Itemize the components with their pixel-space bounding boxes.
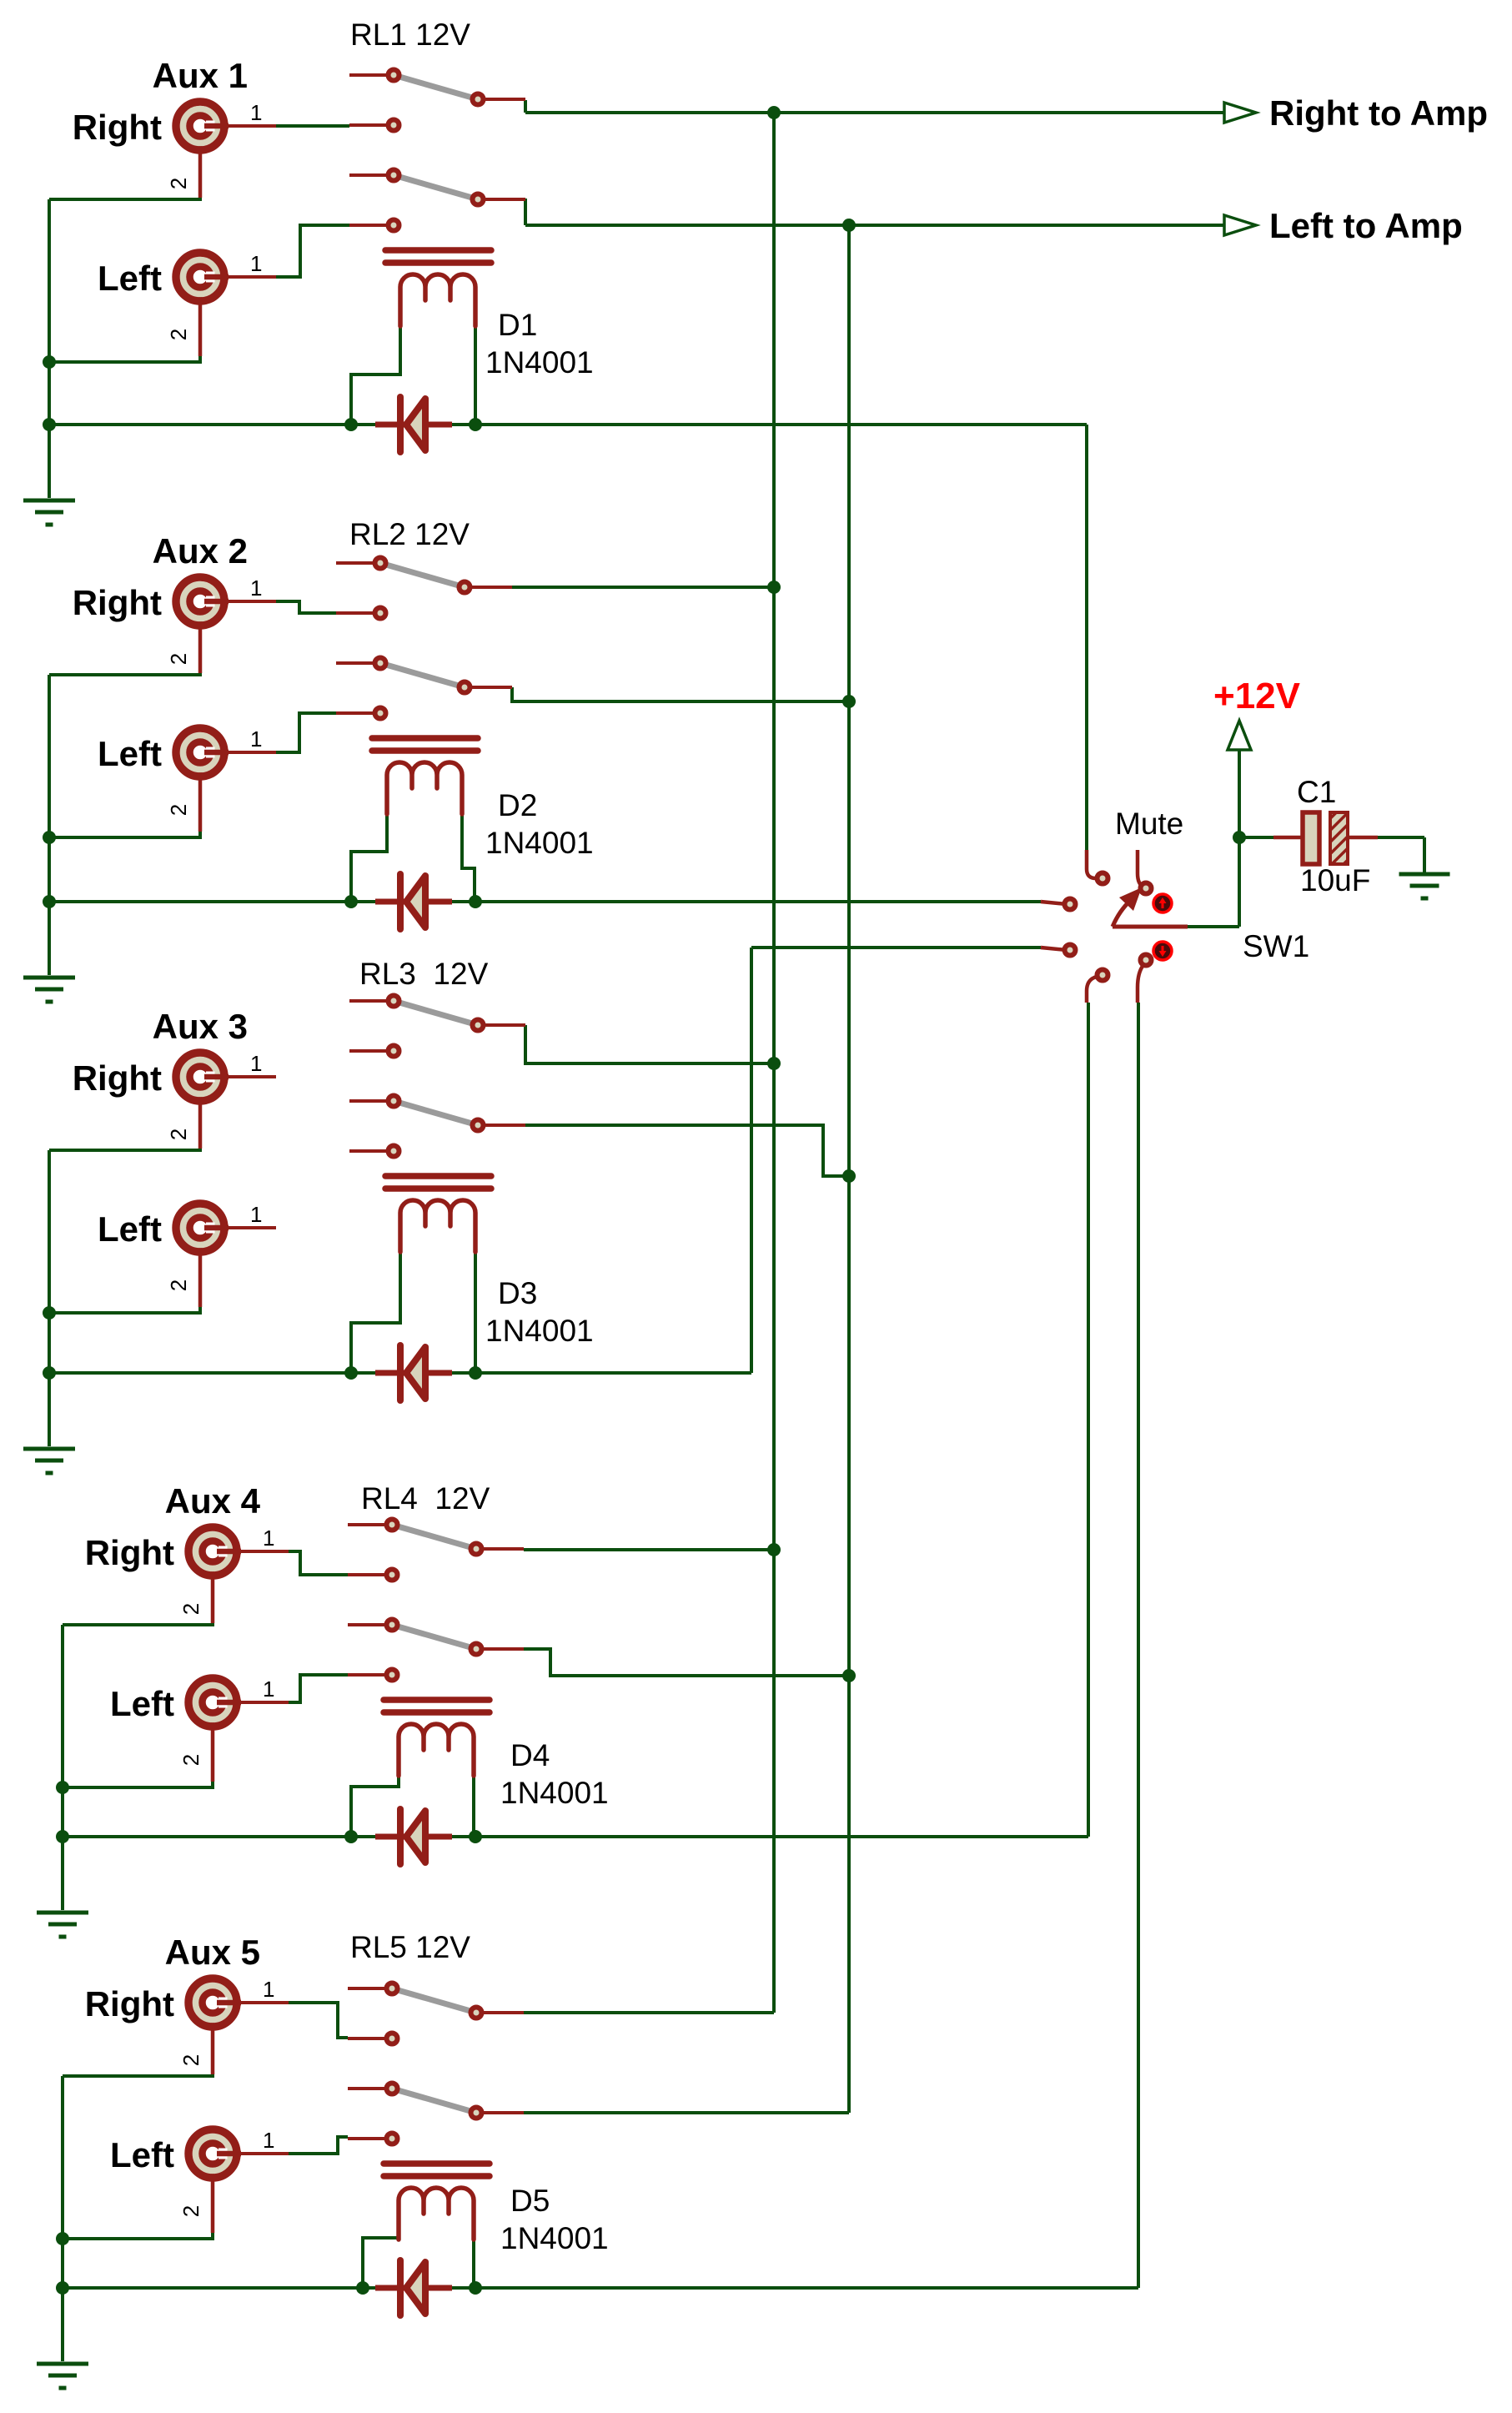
svg-text:D5: D5	[510, 2184, 550, 2218]
svg-text:2: 2	[166, 1279, 191, 1291]
svg-text:2: 2	[166, 178, 191, 189]
svg-text:1: 1	[263, 1977, 274, 2002]
svg-text:+12V: +12V	[1213, 676, 1301, 716]
svg-text:Left to Amp: Left to Amp	[1269, 206, 1463, 245]
svg-text:Left: Left	[98, 259, 162, 298]
svg-text:2: 2	[166, 653, 191, 665]
svg-text:2: 2	[178, 2205, 203, 2217]
svg-text:1N4001: 1N4001	[485, 1314, 594, 1348]
svg-text:D4: D4	[510, 1738, 550, 1772]
svg-text:Left: Left	[110, 2135, 174, 2174]
svg-text:1N4001: 1N4001	[500, 1776, 609, 1810]
svg-text:1: 1	[250, 576, 262, 601]
svg-text:RL2 12V: RL2 12V	[349, 517, 470, 551]
svg-text:1: 1	[263, 1526, 274, 1551]
svg-text:2: 2	[166, 329, 191, 340]
svg-text:Aux 4: Aux 4	[165, 1481, 261, 1521]
svg-text:RL3 12V: RL3 12V	[359, 957, 489, 991]
svg-text:Aux 3: Aux 3	[153, 1007, 248, 1046]
svg-text:Right: Right	[73, 583, 162, 622]
svg-text:10uF: 10uF	[1300, 863, 1370, 897]
svg-text:1: 1	[263, 1677, 274, 1702]
svg-text:D1: D1	[498, 308, 537, 342]
svg-text:RL1 12V: RL1 12V	[350, 18, 470, 52]
svg-text:RL5 12V: RL5 12V	[350, 1930, 470, 1964]
svg-text:Right: Right	[73, 108, 162, 147]
svg-text:1: 1	[263, 2128, 274, 2153]
svg-text:Right to Amp: Right to Amp	[1269, 93, 1488, 133]
svg-text:1: 1	[250, 100, 262, 125]
svg-text:C1: C1	[1297, 775, 1336, 809]
svg-text:2: 2	[166, 1129, 191, 1140]
svg-text:Aux 5: Aux 5	[165, 1933, 260, 1972]
svg-text:Mute: Mute	[1115, 807, 1183, 841]
svg-text:1: 1	[250, 726, 262, 752]
svg-text:1N4001: 1N4001	[485, 345, 594, 380]
svg-text:Right: Right	[85, 1533, 174, 1572]
svg-text:Left: Left	[110, 1684, 174, 1723]
svg-text:SW1: SW1	[1243, 929, 1309, 963]
svg-text:2: 2	[178, 1603, 203, 1615]
svg-text:Right: Right	[85, 1984, 174, 2023]
svg-text:2: 2	[178, 2054, 203, 2066]
svg-text:1: 1	[250, 1202, 262, 1227]
svg-text:D3: D3	[498, 1276, 537, 1310]
svg-text:2: 2	[178, 1754, 203, 1766]
svg-text:1: 1	[250, 251, 262, 276]
svg-text:Aux 1: Aux 1	[153, 56, 248, 95]
svg-text:1N4001: 1N4001	[485, 826, 594, 860]
svg-text:Aux 2: Aux 2	[153, 531, 248, 571]
svg-text:1: 1	[250, 1051, 262, 1076]
svg-text:1N4001: 1N4001	[500, 2221, 609, 2255]
svg-text:Left: Left	[98, 734, 162, 773]
svg-text:2: 2	[166, 804, 191, 816]
svg-text:Left: Left	[98, 1209, 162, 1249]
svg-text:RL4 12V: RL4 12V	[361, 1481, 490, 1516]
svg-text:D2: D2	[498, 788, 537, 822]
svg-text:Right: Right	[73, 1058, 162, 1098]
